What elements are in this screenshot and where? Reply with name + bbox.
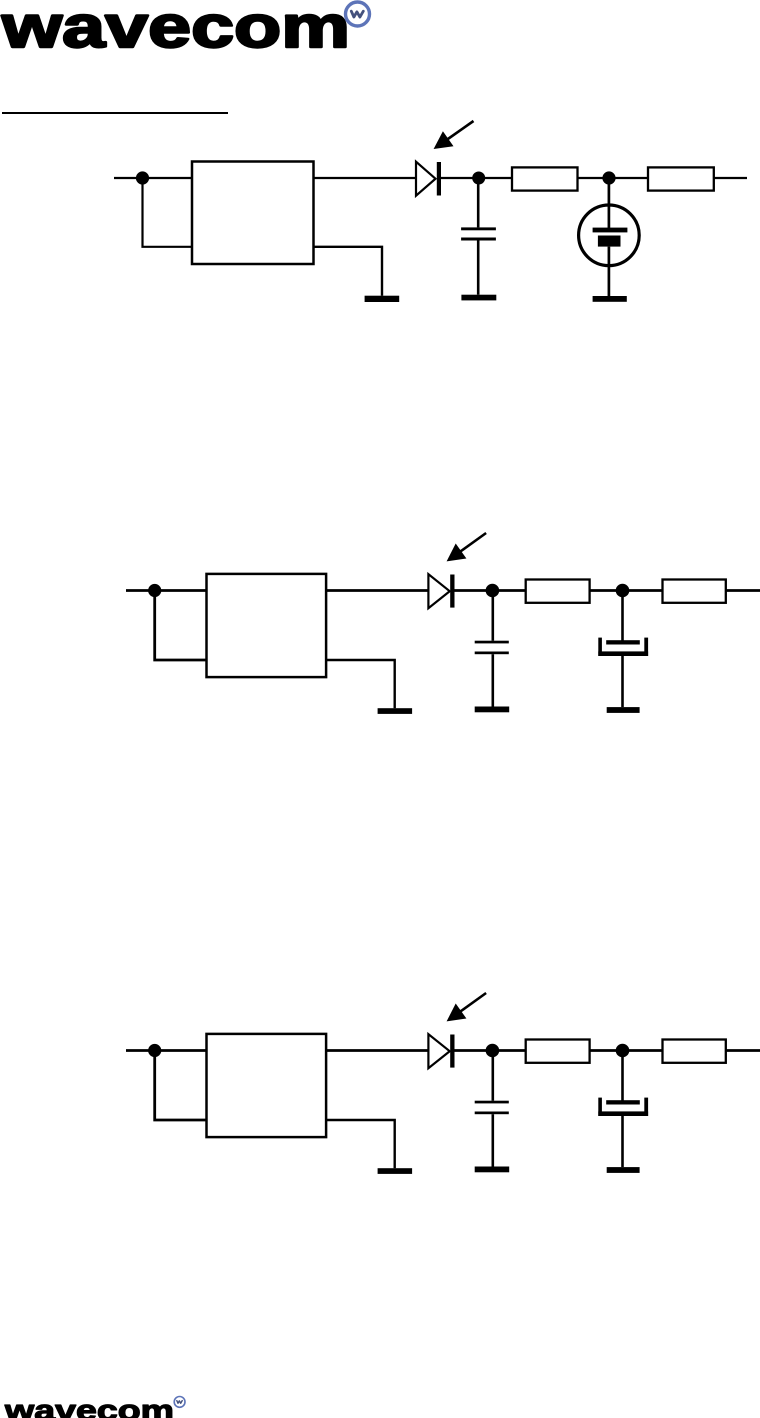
svg-text:wavecom: wavecom (1, 0, 350, 60)
svg-text:wavecom: wavecom (4, 1395, 174, 1418)
